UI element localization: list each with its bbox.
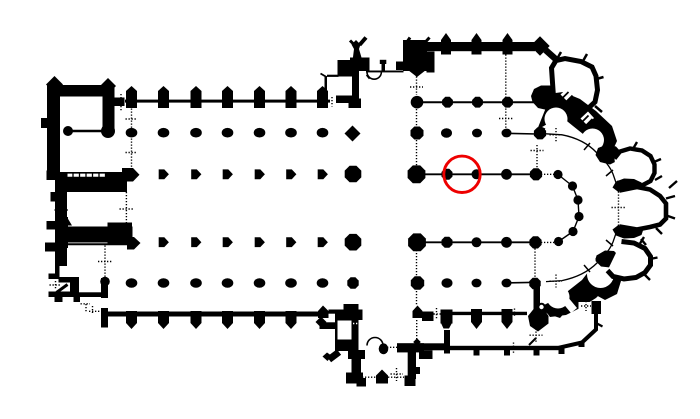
choir north arcade wall <box>411 86 561 132</box>
choir south wall <box>413 306 528 330</box>
north radiating chapel 1 outline <box>552 52 604 112</box>
southwest porch <box>49 262 103 302</box>
dotted axis south crossing <box>416 250 418 340</box>
dotted cross choir south <box>431 308 443 320</box>
dotted cross south porch <box>391 368 404 381</box>
north ambulatory wall band <box>542 88 617 156</box>
ambulatory inner arc south <box>546 226 619 288</box>
choir arcade south row <box>408 233 541 251</box>
dotted cross narthex west <box>55 202 69 218</box>
choir arcade north row <box>408 165 542 183</box>
north transept west side <box>321 38 370 109</box>
northwest tower <box>41 76 125 172</box>
north aisle piers row <box>126 126 361 142</box>
axial east chapel <box>613 179 678 246</box>
nave arcade north row <box>159 166 362 183</box>
south choir aisle outer wall <box>397 312 603 386</box>
north transept portal with door arc <box>366 60 404 79</box>
choir southeast pier mass <box>528 284 549 345</box>
southwest stair pier <box>100 277 110 298</box>
northeast chapel <box>596 142 663 187</box>
choir north wall <box>422 33 536 55</box>
southeast chapel <box>596 237 658 280</box>
dotted line choir north <box>499 52 513 129</box>
south transept west side <box>316 304 367 387</box>
dotted cross sw porch <box>50 281 62 289</box>
dotted cross west end nave wall <box>114 94 128 111</box>
nave arcade south row <box>159 234 362 251</box>
south aisle piers row <box>126 277 359 288</box>
dotted bits choir south wall <box>514 309 515 354</box>
south ambulatory outer wall <box>537 296 601 314</box>
nave north wall <box>125 86 330 108</box>
dotted axis west tower <box>126 109 138 171</box>
red highlight circle <box>444 156 480 192</box>
north choir aisle piers <box>411 127 547 140</box>
south transept east side <box>397 343 433 379</box>
nave south wall <box>101 308 319 329</box>
dotted axis southwest <box>98 246 112 278</box>
dotted line choir ne <box>531 145 544 168</box>
ambulatory inner arc north <box>546 128 619 190</box>
dotted cross south ambulatory door <box>581 301 591 311</box>
north transept east chapel <box>396 38 435 78</box>
west facade lower bar <box>45 216 141 252</box>
choir northeast corner <box>530 36 559 62</box>
west facade upper bar with stair <box>47 168 140 266</box>
south transept portal <box>362 338 404 384</box>
dotted axis north transept <box>410 77 423 167</box>
dotted line choir se <box>530 249 543 343</box>
south choir aisle piers <box>411 276 541 289</box>
dotted steps sw corner <box>81 304 100 313</box>
dotted axis narthex <box>120 192 134 225</box>
sanctuary hemicycle piers <box>541 170 584 246</box>
south ambulatory wall band <box>541 254 621 318</box>
dotted axis axial chapel <box>612 192 626 226</box>
